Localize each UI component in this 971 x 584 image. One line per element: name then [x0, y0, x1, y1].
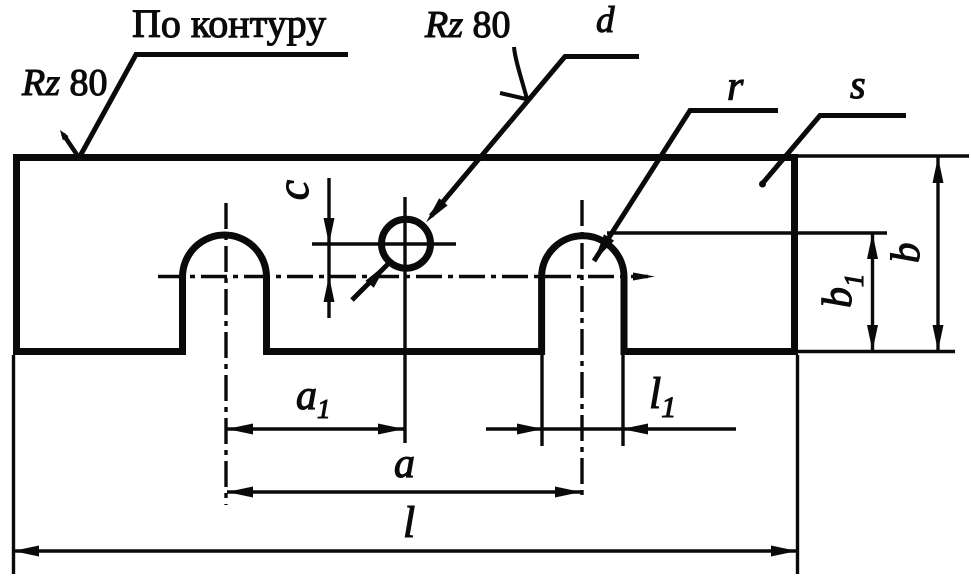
svg-text:По контуру: По контуру — [132, 1, 326, 46]
svg-text:l: l — [403, 498, 415, 547]
svg-text:s: s — [850, 62, 866, 107]
svg-text:r: r — [727, 64, 744, 110]
svg-text:a: a — [394, 441, 415, 487]
svg-text:Rz 80: Rz 80 — [424, 4, 511, 46]
svg-text:Rz 80: Rz 80 — [21, 62, 108, 104]
svg-text:b: b — [882, 243, 928, 264]
svg-text:d: d — [596, 0, 615, 41]
svg-text:c: c — [267, 180, 318, 200]
